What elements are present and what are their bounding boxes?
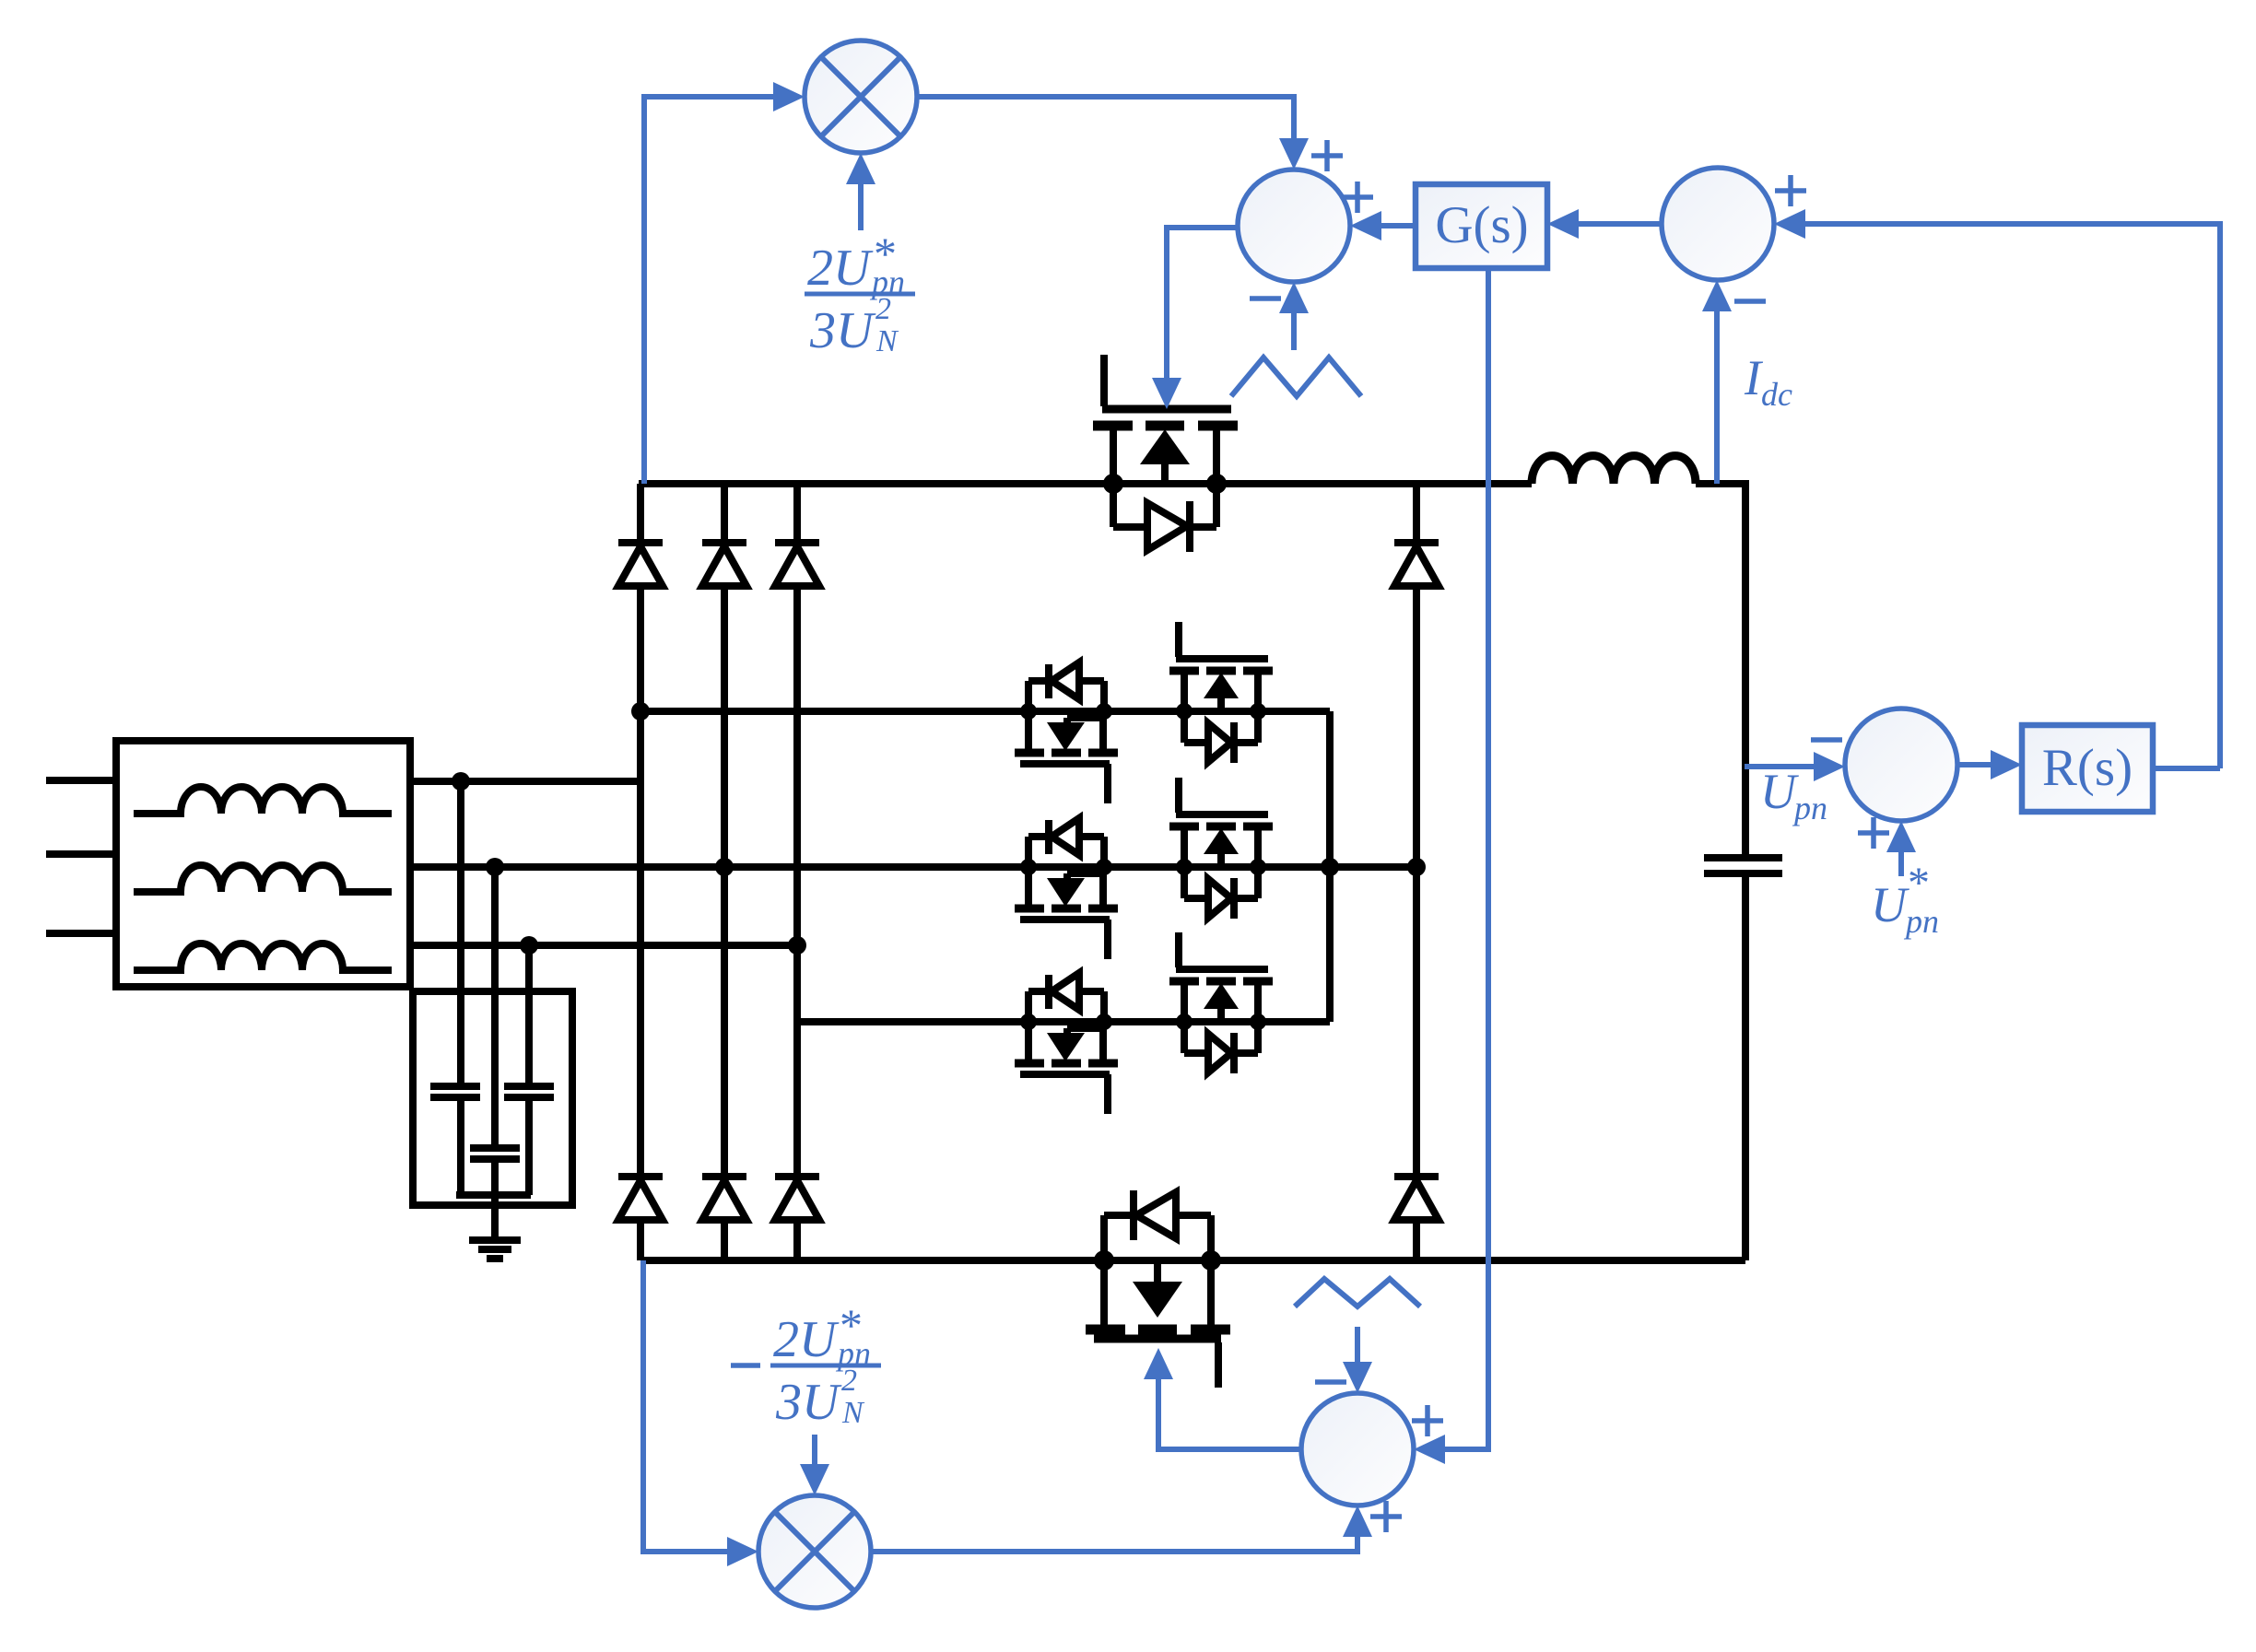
- svg-text:N: N: [875, 324, 899, 358]
- svg-text:N: N: [841, 1396, 865, 1430]
- svg-text:2: 2: [875, 292, 891, 326]
- svg-text:R(s): R(s): [2042, 739, 2133, 797]
- svg-text:3U: 3U: [809, 302, 876, 359]
- svg-text:3U: 3U: [775, 1374, 842, 1431]
- svg-text:U: U: [1760, 764, 1799, 819]
- svg-text:2U: 2U: [773, 1311, 840, 1368]
- svg-text:pn: pn: [1903, 903, 1939, 940]
- svg-text:*: *: [840, 1299, 863, 1351]
- svg-text:dc: dc: [1761, 376, 1792, 413]
- svg-text:U: U: [1871, 877, 1909, 932]
- svg-text:pn: pn: [1792, 790, 1827, 826]
- svg-text:2: 2: [841, 1364, 857, 1398]
- svg-text:*: *: [874, 228, 897, 279]
- svg-text:G(s): G(s): [1435, 196, 1528, 254]
- svg-text:*: *: [1908, 859, 1930, 908]
- svg-text:2U: 2U: [807, 240, 874, 297]
